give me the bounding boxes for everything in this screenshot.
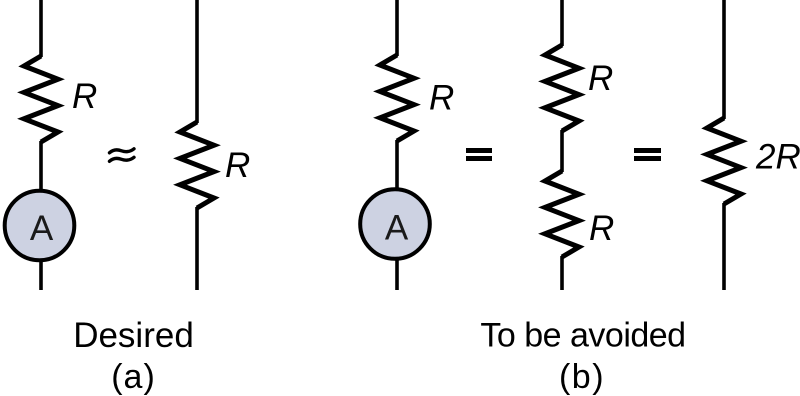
- svg-text:A: A: [30, 209, 54, 248]
- svg-text:R: R: [429, 79, 454, 118]
- svg-text:R: R: [589, 209, 614, 248]
- svg-text:A: A: [385, 209, 409, 248]
- svg-text:R: R: [588, 59, 613, 98]
- svg-text:(a): (a): [111, 358, 156, 396]
- svg-text:Desired: Desired: [73, 316, 194, 355]
- svg-text:R: R: [225, 146, 250, 185]
- svg-text:(b): (b): [559, 358, 605, 396]
- svg-text:R: R: [72, 77, 97, 116]
- svg-text:2R: 2R: [755, 138, 800, 177]
- svg-text:To be avoided: To be avoided: [480, 317, 685, 355]
